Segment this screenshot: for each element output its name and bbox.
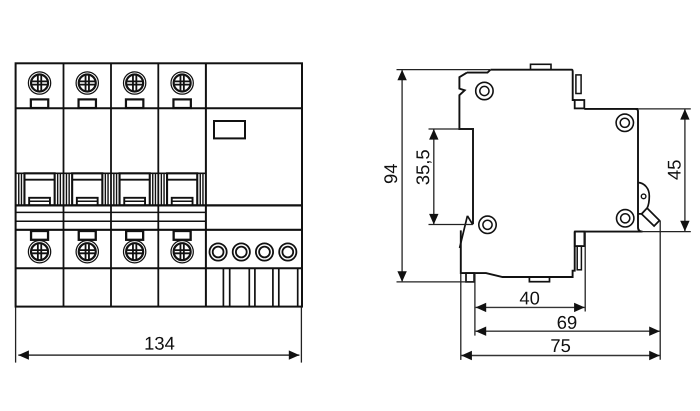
side view: front face [636, 109, 643, 232]
front view: pole divider 4 (right section) [205, 63, 207, 306]
pole 1: toggle handle inner line [29, 200, 50, 202]
pole 3: bottom screw terminal [123, 241, 145, 263]
side view: body outline [459, 70, 574, 277]
side view: toggle pivot hole [641, 194, 646, 199]
pole 2: toggle handle inner line [77, 200, 98, 202]
pole 4: toggle frame [167, 173, 197, 205]
pole 1: top screw terminal [28, 72, 50, 94]
pole 1: toggle handle [29, 198, 50, 206]
side view: bottom step line of front part [575, 231, 641, 233]
side view: bottom terminal block [575, 232, 585, 247]
pole 3: toggle recess grip lines [114, 173, 156, 205]
pole 2: bottom screw terminal [76, 241, 98, 263]
dim 35,5: value text [416, 150, 431, 184]
pole 4: top screw terminal [171, 72, 193, 94]
pole 2: toggle frame top bar [72, 179, 102, 181]
dim 94: value text [384, 164, 397, 183]
dim 69: left arrowhead [476, 327, 487, 336]
dim 134: right extension line [300, 308, 302, 363]
pole 2: toggle frame [72, 173, 102, 205]
pole 1: toggle frame [24, 173, 54, 205]
pole 3: toggle frame top bar [120, 179, 150, 181]
dim 40: right arrowhead [574, 303, 585, 312]
side view: rivet top-left [476, 82, 493, 99]
dim 94: bottom extension line [397, 281, 475, 283]
right section: test hole 1 [210, 243, 227, 260]
pole 2: top terminal window [79, 99, 96, 108]
dim 75: value text [551, 339, 570, 352]
dim 69/75: right extension line [659, 221, 661, 360]
front view: top terminal section line [16, 107, 302, 109]
dim 69: dimension line [476, 330, 660, 332]
dim 45: value text [668, 160, 681, 179]
side view: top terminal lug [576, 75, 581, 94]
dim 94: top extension line [397, 69, 491, 71]
dim 35,5: top arrowhead [429, 129, 438, 140]
pole 2: toggle handle [77, 198, 98, 206]
dim 45: top arrowhead [680, 109, 689, 120]
pole 4: toggle frame top bar [167, 179, 197, 181]
front view: lamination row line 2 [16, 220, 206, 222]
right section: test hole 3 [256, 243, 273, 260]
pole 3: top screw terminal [123, 72, 145, 94]
front view: bottom terminal section line [16, 267, 302, 269]
pole 2: top screw terminal [76, 72, 98, 94]
front view: pole divider 3 [157, 63, 159, 306]
pole 4: bottom screw terminal [171, 241, 193, 263]
pole 1: bottom terminal window [31, 231, 48, 240]
pole 2: toggle recess grip lines [66, 173, 108, 205]
pole 4: top terminal window [173, 99, 190, 108]
right section: label window [214, 121, 245, 138]
front view: lamination row line 1 [16, 211, 206, 213]
side view: toggle lever [642, 208, 660, 226]
right section: test hole 4 [279, 243, 296, 260]
dim 35,5: top extension line [429, 128, 474, 130]
dim 94: dimension line [401, 70, 403, 281]
side view: bottom-left mounting tab [466, 273, 474, 282]
front view: breaker body outline [16, 63, 302, 306]
pole 1: toggle recess grip lines [19, 173, 61, 205]
front view: lower section line [16, 229, 302, 231]
dim 45: bottom extension line [641, 231, 691, 233]
pole 3: toggle handle [124, 198, 145, 206]
side view: top clip tab [531, 64, 552, 69]
dim 94: top arrowhead [397, 70, 406, 81]
dim 40/69: left extension line [474, 274, 476, 336]
side view: DIN clip tooth edge [467, 216, 472, 224]
side view: rivet bottom-right [617, 210, 634, 227]
dim 75: right arrowhead [649, 351, 660, 360]
dim 45: dimension line [684, 109, 686, 231]
dim 35,5: dimension line [433, 129, 435, 224]
dim 40: value text [520, 292, 539, 305]
dim 45: top extension line [638, 108, 691, 110]
dim 134: value text [146, 337, 175, 350]
front view: pole divider 1 [63, 63, 65, 306]
dim 35,5: bottom arrowhead [429, 214, 438, 225]
side view: rivet bottom-left [479, 216, 496, 233]
pole 3: top terminal window [126, 99, 143, 108]
pole 4: toggle handle inner line [172, 200, 193, 202]
dim 40: left arrowhead [476, 303, 487, 312]
pole 4: toggle handle [172, 198, 193, 206]
right section: test hole 2 [233, 243, 250, 260]
dim 45: bottom arrowhead [680, 221, 689, 232]
dim 134: right arrowhead [289, 350, 300, 359]
pole 3: toggle frame [120, 173, 150, 205]
side view: top terminal block [575, 100, 585, 108]
side view: rivet top-right [616, 114, 633, 131]
dim 40: dimension line [476, 306, 585, 308]
front view: toggle band top line [16, 172, 206, 174]
pole 1: top terminal window [31, 99, 48, 108]
dim 75: dimension line [461, 355, 660, 357]
side view: toggle housing [638, 183, 649, 214]
pole 1: toggle frame top bar [24, 179, 54, 181]
dim 69: value text [558, 316, 577, 329]
dim 40: right extension line [584, 232, 586, 312]
dim 134: left extension line [15, 308, 17, 363]
pole 4: toggle recess grip lines [161, 173, 203, 205]
pole 1: bottom screw terminal [28, 241, 50, 263]
side view: bottom terminal lug [577, 246, 581, 270]
dim 75: left extension line [460, 273, 462, 360]
dim 75: left arrowhead [461, 351, 472, 360]
dim 35,5: bottom extension line [429, 224, 473, 226]
dim 134: dimension line [18, 354, 299, 356]
pole 3: bottom terminal window [126, 231, 143, 240]
dim 69: right arrowhead [649, 327, 660, 336]
pole 3: toggle handle inner line [124, 200, 145, 202]
side view: bottom clip tab [529, 277, 549, 282]
side view: top face of front part [584, 108, 638, 110]
side view: DIN clip tooth diagonal [460, 216, 468, 248]
dim 134: left arrowhead [18, 350, 29, 359]
front view: toggle band bottom line [16, 204, 302, 206]
pole 4: bottom terminal window [174, 231, 191, 240]
right section: bottom terminal separators [223, 268, 297, 306]
dim 94: bottom arrowhead [397, 271, 406, 282]
pole 2: bottom terminal window [79, 231, 96, 240]
front view: pole divider 2 [110, 63, 112, 306]
